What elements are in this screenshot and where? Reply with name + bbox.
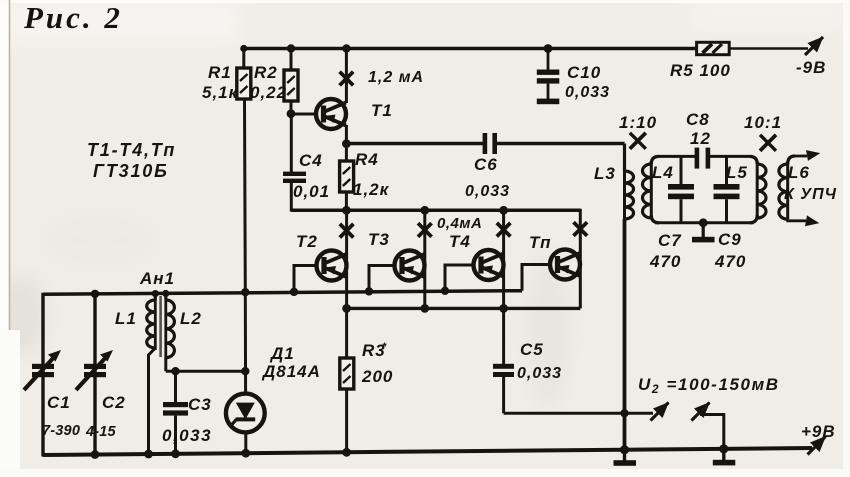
- wire: collector bus of T2-Tn: [291, 209, 580, 213]
- resistor R3* with leads: [340, 308, 354, 452]
- svg-text:С10: С10: [567, 63, 601, 82]
- terminal -9V: [805, 37, 824, 56]
- capacitor C10: [537, 49, 560, 100]
- label C7 470: [649, 231, 682, 271]
- label 0,4мА: [437, 215, 482, 232]
- svg-text:470: 470: [649, 252, 681, 271]
- node: bottom rail / U2 ground: [719, 444, 728, 453]
- svg-text:Тп: Тп: [529, 233, 552, 252]
- wire: top rail right of R5: [729, 47, 808, 50]
- wire: L6 bottom output lead with arrow: [788, 215, 821, 228]
- wire: Tn base lead loop: [522, 265, 551, 291]
- resistor R2 body: [284, 70, 298, 101]
- svg-text:С6: С6: [474, 155, 498, 174]
- label 1:10: [619, 113, 657, 132]
- node: emitter bus / R3: [342, 304, 351, 313]
- wire: Tn collector drop from bus corner: [579, 209, 582, 309]
- node: bottom rail / L1: [144, 450, 153, 459]
- label R2 0,22: [250, 63, 287, 102]
- label R5 100: [670, 61, 731, 80]
- svg-text:L5: L5: [726, 163, 748, 182]
- inductor L5: [750, 156, 767, 222]
- node: emitter bus / T4 emitter / C5: [499, 304, 508, 313]
- svg-text:0,033: 0,033: [465, 183, 510, 200]
- wire: tank bottom wire: [655, 221, 754, 224]
- figure caption "Рис. 2": [23, 0, 123, 35]
- node: R2 top on rail: [287, 44, 295, 52]
- label R4 1,2к: [353, 150, 390, 199]
- label C2 4-15: [85, 393, 126, 440]
- wire: bottom common rail: [43, 448, 812, 455]
- svg-text:U2 =100-150мВ: U2 =100-150мВ: [638, 375, 780, 396]
- ground at L3 line: [614, 450, 637, 466]
- measuring point X on T4 collector: [497, 223, 511, 237]
- wire: T3 base lead: [369, 266, 395, 292]
- terminal +9V: [808, 436, 827, 455]
- svg-text:Д1: Д1: [269, 344, 295, 363]
- label L3: [594, 164, 616, 183]
- label Тп: [529, 233, 552, 252]
- wire: tank top wire left: [659, 155, 695, 158]
- label Т4: [449, 232, 471, 251]
- svg-text:L4: L4: [652, 163, 674, 182]
- node: base bus / R1-D1 line: [241, 288, 249, 296]
- svg-text:R2: R2: [254, 63, 278, 82]
- wire: tank top wire right: [710, 155, 750, 158]
- svg-text:0,033: 0,033: [162, 426, 212, 445]
- svg-text:*: *: [382, 341, 387, 353]
- inductor L4: [643, 156, 660, 222]
- svg-text:L6: L6: [788, 163, 810, 182]
- wire: T4 collector-emitter vertical: [502, 210, 505, 308]
- transistor T1: [316, 99, 346, 129]
- label -9В: [796, 58, 826, 77]
- label Д1 Д814А: [261, 344, 321, 381]
- svg-text:Д814А: Д814А: [261, 362, 321, 381]
- node: tank bottom center: [699, 218, 708, 227]
- svg-text:-9В: -9В: [796, 58, 826, 77]
- diode D1 (zener): [226, 394, 265, 433]
- label Т3: [368, 230, 390, 249]
- transistor T2: [317, 251, 347, 281]
- svg-text:С1: С1: [47, 393, 71, 412]
- label C10 value: [565, 63, 610, 101]
- terminal U2 right: [692, 402, 711, 421]
- node: top rail left corner at R1: [240, 45, 247, 52]
- wire: C6 to L3: [497, 142, 625, 145]
- capacitor C4 lead from T1 base node: [290, 114, 293, 172]
- inductor L2: [166, 293, 175, 372]
- terminal U2 left: [651, 402, 670, 421]
- svg-text:470: 470: [714, 252, 746, 271]
- svg-text:С4: С4: [299, 151, 323, 170]
- svg-text:Т1: Т1: [371, 101, 393, 120]
- node: bottom rail / D1: [241, 449, 250, 458]
- node: L1 top on bus: [152, 290, 159, 297]
- svg-text:С9: С9: [718, 230, 742, 249]
- node: base bus / T2 base: [290, 288, 298, 296]
- wire: R1 bottom lead down to base bus: [243, 99, 247, 292]
- label L4: [652, 163, 674, 182]
- svg-text:1,2 мА: 1,2 мА: [368, 69, 424, 86]
- svg-text:С8: С8: [686, 110, 710, 129]
- transistor type note "Т1-Т4,Тп ГТ310Б": [87, 140, 176, 181]
- svg-text:R4: R4: [355, 150, 379, 169]
- svg-text:1,2к: 1,2к: [353, 180, 390, 199]
- transistor Tn: [550, 250, 580, 280]
- node: bus/T3 collector junction: [420, 206, 429, 215]
- wire: T1 emitter lead down: [345, 125, 348, 144]
- node: bottom rail / C2: [91, 450, 100, 459]
- resistor R1 body: [237, 68, 251, 99]
- wire: T1 collector lead: [345, 49, 348, 104]
- capacitor C3 with leads: [163, 371, 188, 455]
- wire: T4 base lead: [445, 265, 474, 291]
- wire: T1 base lead: [291, 113, 317, 116]
- svg-text:С7: С7: [658, 231, 682, 250]
- label C3 0,033: [162, 395, 212, 445]
- capacitor C6: [483, 133, 497, 154]
- node: bottom rail / C3: [171, 449, 180, 458]
- node: emitter bus / T3 emitter: [420, 304, 429, 313]
- label C9 470: [714, 230, 746, 271]
- transistor T3: [395, 251, 425, 281]
- svg-text:0,01: 0,01: [293, 182, 330, 201]
- ground at U2: [713, 449, 736, 466]
- coupling mark X 10:1: [760, 135, 776, 151]
- variable capacitor C1: [24, 350, 61, 390]
- capacitor C4: [283, 172, 306, 183]
- measuring point X on T1 collector: [340, 72, 354, 86]
- wire: T3 collector-emitter vertical: [423, 210, 426, 308]
- capacitor C8: [695, 148, 711, 169]
- svg-text:4-15: 4-15: [85, 424, 117, 440]
- svg-text:С2: С2: [102, 393, 126, 412]
- svg-text:0,4мА: 0,4мА: [437, 215, 482, 232]
- wire: C2 branch top: [93, 294, 96, 456]
- capacitor C5 with leads: [493, 308, 514, 413]
- label 1,2 мА: [368, 69, 424, 86]
- node: D1 top junction: [241, 367, 249, 375]
- wire: T2 collector-emitter vertical: [345, 210, 348, 308]
- svg-text:5,1к: 5,1к: [202, 83, 239, 102]
- wire: -9V top rail: [244, 47, 697, 51]
- label Т1: [371, 101, 393, 120]
- svg-text:ГТ310Б: ГТ310Б: [93, 161, 169, 181]
- label C8 12: [686, 110, 711, 148]
- node: C10 to rail: [544, 44, 553, 53]
- node: bus/T4 collector junction: [499, 206, 508, 215]
- svg-text:L3: L3: [594, 164, 616, 183]
- label L5: [726, 163, 748, 182]
- wire: L6 top output lead with arrow: [795, 148, 821, 161]
- svg-text:L2: L2: [180, 309, 202, 328]
- label L6: [788, 163, 810, 182]
- inductor L6: [779, 156, 795, 219]
- label L1: [115, 309, 137, 328]
- node: base bus / T3 base: [365, 287, 373, 295]
- svg-text:Т4: Т4: [449, 232, 471, 251]
- resistor R4 body: [340, 144, 354, 211]
- wire: T2 base lead: [294, 266, 317, 293]
- variable capacitor C2: [76, 350, 113, 390]
- inductor L1: [147, 293, 156, 455]
- svg-text:7-390: 7-390: [42, 423, 80, 439]
- label L2: [180, 309, 202, 328]
- ground below C10: [537, 99, 560, 105]
- label 10:1: [744, 113, 782, 132]
- svg-text:1:10: 1:10: [619, 113, 657, 132]
- transistor T4: [474, 250, 504, 280]
- svg-text:Т2: Т2: [296, 232, 318, 251]
- node: R4 top at emitter wire: [342, 139, 351, 148]
- label R1 5,1к: [202, 63, 239, 102]
- svg-text:Ан1: Ан1: [139, 269, 175, 288]
- svg-text:0,033: 0,033: [565, 84, 610, 101]
- label Т2: [296, 232, 318, 251]
- svg-text:+9В: +9В: [801, 422, 836, 441]
- svg-text:R1: R1: [208, 63, 232, 82]
- label К УПЧ: [784, 186, 837, 203]
- wire: T1 emitter horizontal wire to C6: [346, 142, 483, 145]
- svg-text:10:1: 10:1: [744, 113, 782, 132]
- node: bottom rail / L3 ground line: [620, 445, 629, 454]
- label Ан1: [139, 269, 175, 288]
- label C1 7-390: [42, 393, 80, 439]
- wire: common emitter bus: [347, 307, 581, 310]
- node: base bus / C2 branch: [91, 290, 99, 298]
- wire: R1 top lead: [242, 47, 245, 68]
- wire: left tank left branch top: [41, 293, 44, 457]
- ground below tank: [692, 223, 715, 243]
- measuring point X on T3 collector: [418, 223, 432, 237]
- ferrite core of antenna transformer: [159, 296, 162, 357]
- node: base bus / T4 base: [441, 287, 449, 295]
- inductor L3 with top corner: [625, 144, 634, 220]
- svg-text:Рис. 2: Рис. 2: [23, 0, 123, 35]
- label C6 0,033: [465, 155, 510, 200]
- wire: U2 right terminal to bottom rail: [700, 415, 724, 449]
- wire: C4 bottom lead to collector bus: [290, 183, 293, 212]
- wire: bus to D1: [244, 292, 247, 393]
- node: T1 base node: [287, 109, 296, 118]
- capacitor C9 with leads: [714, 156, 740, 222]
- measuring point X on Tn collector: [574, 222, 588, 236]
- svg-text:С5: С5: [520, 340, 544, 359]
- resistor R5 body: [697, 42, 730, 54]
- node: bus/T2 collector junction: [342, 206, 351, 215]
- svg-text:С3: С3: [188, 395, 212, 414]
- node: L2 top on bus: [162, 290, 169, 297]
- node: bottom rail / R3: [342, 448, 351, 457]
- label C4 0,01: [293, 151, 330, 201]
- label R3* 200: [361, 341, 393, 386]
- node: C3 tap: [171, 367, 179, 375]
- wire: L3 bottom to ground rail: [623, 219, 627, 450]
- svg-text:К УПЧ: К УПЧ: [784, 186, 837, 203]
- svg-text:0,033: 0,033: [517, 365, 562, 382]
- wire: L2 bottom to D1 line: [166, 370, 246, 373]
- measuring point X on T2 collector: [340, 224, 354, 238]
- node: C5 wire crosses ground line: [620, 409, 628, 417]
- svg-text:L1: L1: [115, 309, 137, 328]
- wire: common base bus: [43, 291, 522, 295]
- svg-text:Т3: Т3: [368, 230, 390, 249]
- svg-text:Т1-Т4,Тп: Т1-Т4,Тп: [87, 140, 176, 160]
- wire: R2 bottom lead to T1 base node: [290, 101, 293, 115]
- capacitor C7 with leads: [668, 156, 694, 222]
- label U2 = 100-150мВ: [638, 375, 780, 396]
- svg-text:12: 12: [690, 129, 711, 148]
- node: T1 collector on rail: [342, 44, 350, 52]
- label +9В: [801, 422, 836, 441]
- wire: D1 bottom lead: [244, 432, 247, 454]
- coupling mark X 1:10: [630, 133, 646, 149]
- wire: C5 bottom to U2 terminal: [504, 412, 653, 415]
- svg-text:200: 200: [361, 367, 393, 386]
- wire: R2 top lead: [290, 49, 293, 71]
- svg-text:R5 100: R5 100: [670, 61, 731, 80]
- label C5 0,033: [517, 340, 562, 382]
- svg-text:0,22: 0,22: [250, 83, 287, 102]
